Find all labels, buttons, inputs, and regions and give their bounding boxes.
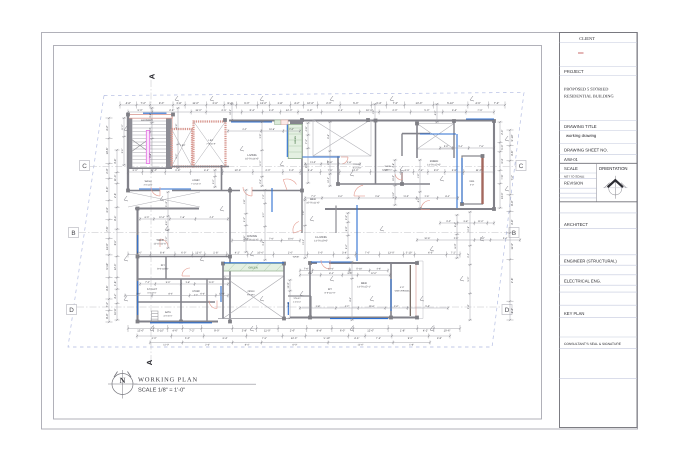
svg-text:11'-0": 11'-0" [192, 102, 199, 105]
interior dimension row B [127, 252, 461, 258]
svg-text:12'-0": 12'-0" [286, 109, 293, 112]
svg-text:5'-10": 5'-10" [406, 252, 413, 255]
svg-text:D: D [505, 307, 510, 314]
svg-text:10'-6": 10'-6" [114, 308, 117, 315]
svg-text:3'-4": 3'-4" [345, 244, 348, 249]
drawing area inner border [54, 46, 542, 420]
interior dimension row D [299, 273, 391, 277]
svg-text:5'-0": 5'-0" [289, 169, 294, 172]
veranda red edge [415, 264, 417, 318]
svg-text:7'-6": 7'-6" [365, 252, 370, 255]
svg-text:2'-6": 2'-6" [149, 153, 152, 158]
svg-text:7'-2": 7'-2" [305, 139, 308, 144]
svg-text:4'-2": 4'-2" [345, 305, 350, 308]
svg-text:2'-6": 2'-6" [205, 344, 210, 347]
interior dim col J [260, 121, 264, 187]
svg-text:5'-0": 5'-0" [353, 102, 358, 105]
bottom-right block top wall a [310, 262, 317, 264]
property boundary (dashed) [68, 93, 524, 348]
svg-text:5'-10": 5'-10" [349, 267, 352, 273]
svg-text:5'-0": 5'-0" [501, 144, 504, 149]
svg-text:2'-0": 2'-0" [288, 252, 293, 255]
svg-text:5'-10": 5'-10" [157, 330, 164, 333]
svg-text:2'-6": 2'-6" [121, 148, 124, 153]
title block rule [560, 291, 638, 293]
stair cross [131, 139, 149, 152]
svg-text:4'-2": 4'-2" [423, 330, 428, 333]
svg-text:9'-0": 9'-0" [434, 169, 439, 172]
svg-text:4'-6": 4'-6" [126, 102, 131, 105]
svg-text:ARCHITECT: ARCHITECT [564, 222, 588, 227]
svg-text:3'-8": 3'-8" [452, 169, 457, 172]
title block frame [560, 33, 638, 428]
svg-text:3'-8": 3'-8" [511, 219, 514, 224]
mid wall seg 2 [172, 190, 240, 192]
svg-text:3'-0"x4'-6": 3'-0"x4'-6" [143, 183, 152, 186]
svg-text:7'-2": 7'-2" [262, 194, 265, 199]
svg-text:16'-0"x14'-6": 16'-0"x14'-6" [245, 157, 259, 160]
blue line top corridor [231, 121, 272, 123]
svg-text:13'-0": 13'-0" [310, 161, 316, 164]
room label BED [306, 197, 320, 204]
room label OPEN [247, 290, 255, 296]
title block rule [560, 130, 638, 132]
svg-text:KEY PLAN: KEY PLAN [564, 311, 584, 316]
misc tick arrows [124, 96, 509, 331]
svg-text:6'-0": 6'-0" [114, 240, 117, 245]
door swing lobby-wash [151, 187, 160, 196]
columns [126, 113, 496, 324]
interior dimension col G [288, 279, 292, 319]
top dimension row 1 [119, 102, 506, 109]
svg-text:5'-10": 5'-10" [447, 102, 454, 105]
title block rule [560, 304, 638, 306]
svg-text:8'-4": 8'-4" [327, 134, 330, 139]
svg-text:5'-10": 5'-10" [165, 201, 168, 207]
interior dim col U [435, 103, 439, 123]
title block rule [560, 228, 638, 230]
svg-text:4'-2": 4'-2" [294, 102, 299, 105]
court left wall [222, 264, 224, 319]
svg-text:1'-8": 1'-8" [277, 102, 282, 105]
svg-text:6'-0": 6'-0" [133, 169, 138, 172]
bottom dimension row 3 [149, 341, 431, 345]
interior dim col K [328, 121, 332, 187]
interior dim row I [139, 217, 229, 221]
room label 4'-0" [395, 286, 411, 292]
svg-text:13'-0": 13'-0" [106, 243, 109, 250]
svg-text:6'-0": 6'-0" [181, 252, 186, 255]
svg-text:6'-0": 6'-0" [454, 244, 457, 249]
bottom wall left [138, 320, 219, 322]
svg-text:12'-0": 12'-0" [229, 109, 232, 115]
grid line D [77, 306, 501, 308]
interior dim row H [304, 196, 459, 200]
door swing d.bed [209, 301, 217, 309]
door swing f.living [293, 222, 302, 234]
svg-text:7'-2": 7'-2" [141, 102, 146, 105]
svg-text:13'-0": 13'-0" [328, 268, 334, 271]
interior dimension col D [306, 122, 310, 184]
blue line wash [139, 188, 191, 190]
svg-text:8'-4": 8'-4" [160, 252, 165, 255]
lobby left wall [221, 165, 223, 191]
svg-text:6'-0": 6'-0" [244, 102, 249, 105]
svg-text:3'-4": 3'-4" [342, 252, 347, 255]
svg-text:DRAWING TITLE: DRAWING TITLE [564, 124, 597, 129]
north symbol [108, 370, 138, 399]
svg-text:4'-6": 4'-6" [172, 330, 177, 333]
scale/orientation divider [596, 163, 598, 202]
wall hatch block top [290, 120, 303, 125]
svg-text:10'-6": 10'-6" [366, 109, 373, 112]
green planter vertical [288, 125, 302, 159]
svg-text:12'-0": 12'-0" [260, 102, 267, 105]
svg-text:9'-0": 9'-0" [166, 281, 171, 284]
svg-text:7'-6": 7'-6" [501, 174, 504, 179]
stair right pink edge [172, 115, 174, 168]
door swing bath [395, 173, 402, 180]
svg-text:9'-0": 9'-0" [106, 313, 109, 318]
svg-text:1'-8": 1'-8" [175, 169, 180, 172]
grid line B [79, 232, 508, 234]
svg-text:7'-2": 7'-2" [494, 102, 499, 105]
svg-text:4'-2": 4'-2" [209, 216, 214, 219]
interior dim row K [299, 269, 389, 273]
cluster v3 [206, 279, 208, 322]
bath wall upper [401, 134, 403, 156]
interior dim col S [230, 103, 234, 121]
stair handrail (magenta) [146, 131, 149, 164]
svg-text:CLIENT: CLIENT [579, 36, 595, 41]
grid bubble D left [67, 305, 77, 315]
svg-text:7'-2": 7'-2" [189, 330, 194, 333]
blue riser court [287, 302, 289, 315]
grid bubble D right [502, 305, 512, 315]
svg-text:9'-0": 9'-0" [212, 179, 215, 184]
svg-text:9'-0": 9'-0" [214, 330, 219, 333]
svg-text:13'-0": 13'-0" [415, 102, 422, 105]
title block rule [560, 66, 638, 68]
room label WASH [293, 256, 300, 259]
bottom-right block top wall b [329, 262, 417, 264]
svg-text:LOBBY: LOBBY [192, 179, 200, 182]
svg-text:12'-0": 12'-0" [150, 169, 157, 172]
svg-text:REVISION: REVISION [564, 181, 583, 186]
svg-text:13'-0": 13'-0" [501, 192, 504, 199]
interior dimension col A [244, 189, 248, 253]
blue line R.BED top [420, 133, 456, 135]
svg-text:5'-0": 5'-0" [424, 109, 429, 112]
svg-text:ENGINEER (STRUCTURAL): ENGINEER (STRUCTURAL) [564, 259, 617, 264]
svg-text:2'-6": 2'-6" [425, 195, 430, 198]
lobby right wall [301, 124, 303, 191]
svg-text:4'-6": 4'-6" [354, 337, 359, 340]
svg-text:7'-6": 7'-6" [106, 226, 109, 231]
interior dim row M [124, 294, 229, 298]
svg-text:2'-0": 2'-0" [326, 102, 331, 105]
svg-text:8'-0"x10'-0": 8'-0"x10'-0" [157, 267, 169, 270]
toilet left wall [337, 156, 339, 184]
green strip [223, 264, 284, 272]
svg-text:NOT TO SCALE: NOT TO SCALE [564, 174, 584, 178]
svg-text:PROJECT: PROJECT [564, 69, 584, 74]
svg-text:2'-6": 2'-6" [137, 252, 142, 255]
interior dim col O [350, 261, 354, 321]
court right wall [283, 264, 285, 319]
svg-text:1'-8": 1'-8" [213, 252, 218, 255]
interior dim row N [299, 306, 449, 310]
svg-text:working drawing: working drawing [566, 133, 597, 138]
interior dim row L [139, 282, 229, 286]
svg-text:7'-6": 7'-6" [393, 102, 398, 105]
central vertical wall [229, 187, 231, 322]
svg-text:4'-2": 4'-2" [417, 197, 420, 202]
svg-text:4'-6": 4'-6" [428, 252, 433, 255]
toilet bottom wall [338, 183, 430, 185]
svg-text:4'-2": 4'-2" [114, 294, 117, 299]
room label T.BED [153, 239, 166, 245]
room label WASH [143, 180, 152, 186]
title block rule [560, 212, 638, 214]
svg-text:ELECTRICAL ENG.: ELECTRICAL ENG. [564, 279, 601, 284]
svg-text:A: A [145, 359, 154, 365]
svg-text:12'-0": 12'-0" [114, 264, 117, 271]
title block rule [560, 153, 638, 155]
toilet right wall [375, 120, 377, 184]
blue line green strip [224, 262, 284, 264]
svg-text:8'-4": 8'-4" [114, 216, 117, 221]
svg-text:7'-2": 7'-2" [106, 302, 109, 307]
svg-text:12'-0": 12'-0" [327, 177, 330, 183]
svg-text:PROPOSED 5 STORIED: PROPOSED 5 STORIED [564, 87, 608, 92]
svg-text:6'-0": 6'-0" [293, 344, 298, 347]
blue riser left wall a [137, 235, 139, 253]
svg-text:BATH: BATH [165, 311, 171, 314]
svg-text:2'-0": 2'-0" [289, 128, 294, 131]
door swing bed right [421, 201, 430, 210]
svg-text:3'-4": 3'-4" [376, 102, 381, 105]
svg-text:BED: BED [361, 281, 367, 285]
svg-text:4'-6": 4'-6" [475, 102, 480, 105]
svg-text:7'-2": 7'-2" [376, 337, 381, 340]
cluster v1 [165, 257, 167, 280]
title block rule [560, 75, 638, 77]
svg-text:SCALE: SCALE [564, 166, 578, 171]
blue line bottom left [150, 322, 212, 324]
svg-text:6'-0": 6'-0" [269, 109, 274, 112]
svg-text:6'-0": 6'-0" [200, 293, 205, 296]
svg-text:LAUNDRY: LAUNDRY [141, 119, 154, 122]
svg-text:2'-6": 2'-6" [308, 272, 313, 275]
veranda walls [462, 156, 483, 204]
door swing dining [243, 187, 252, 196]
wall below right bedrooms [325, 208, 494, 210]
svg-text:2'-0": 2'-0" [501, 130, 504, 135]
title block rule [560, 284, 638, 286]
wall below stair [128, 167, 172, 169]
svg-text:9'-0": 9'-0" [159, 102, 164, 105]
room label F.LIVING [314, 235, 328, 242]
svg-text:OPEN: OPEN [248, 290, 255, 293]
title block rule [560, 274, 638, 276]
svg-text:3'-4": 3'-4" [244, 238, 249, 241]
room label KIT. [157, 264, 169, 270]
svg-text:3'-8": 3'-8" [186, 281, 191, 284]
interior dim row F [439, 146, 495, 150]
svg-text:2'-0": 2'-0" [152, 337, 157, 340]
svg-text:4'-6": 4'-6" [511, 150, 514, 155]
lift shaft L2 [194, 122, 226, 167]
title block rule [560, 172, 597, 174]
svg-text:3'-8": 3'-8" [259, 134, 262, 139]
svg-text:GREEN: GREEN [294, 136, 297, 145]
svg-text:9'-0": 9'-0" [138, 109, 143, 112]
title block rule [560, 187, 597, 189]
svg-text:5'-10": 5'-10" [324, 337, 331, 340]
cluster wall 1 [138, 278, 231, 280]
interior dimension col B [346, 212, 350, 259]
svg-text:5'-10": 5'-10" [392, 192, 395, 198]
partition dining right [301, 191, 303, 234]
svg-text:4'-0"x6'-0": 4'-0"x6'-0" [163, 314, 172, 317]
svg-text:6'-0": 6'-0" [175, 154, 178, 159]
svg-text:A/W-01: A/W-01 [564, 157, 579, 162]
interior dim col H [166, 191, 170, 249]
title block rule [560, 317, 638, 319]
svg-text:2'-0": 2'-0" [454, 237, 459, 240]
stair left wall (filled) [127, 116, 132, 168]
svg-text:2'-6": 2'-6" [221, 109, 226, 112]
grid bubble B left [69, 228, 79, 238]
svg-text:8'-4": 8'-4" [250, 109, 255, 112]
svg-text:11'-0": 11'-0" [121, 124, 124, 130]
svg-text:7'-2": 7'-2" [451, 252, 456, 255]
svg-text:DRAWING SHEET NO.: DRAWING SHEET NO. [564, 148, 608, 153]
svg-text:ORIENTATION: ORIENTATION [599, 166, 628, 171]
svg-text:B: B [512, 230, 516, 237]
svg-text:7'-6": 7'-6" [302, 210, 305, 215]
svg-text:4'-6": 4'-6" [106, 285, 109, 290]
svg-text:2'-6": 2'-6" [114, 193, 117, 198]
svg-text:7'-6": 7'-6" [479, 145, 484, 148]
svg-text:7'-0"x5'-8": 7'-0"x5'-8" [206, 142, 216, 145]
svg-text:5'-10": 5'-10" [356, 268, 362, 271]
title block rule [560, 143, 638, 145]
svg-text:1'-8": 1'-8" [114, 281, 117, 286]
closet stub wall [335, 206, 337, 234]
door swing kit [160, 239, 168, 247]
lift shaft L1 [172, 129, 193, 167]
svg-text:4'-2": 4'-2" [106, 125, 109, 130]
svg-text:10'-6": 10'-6" [235, 169, 242, 172]
interior dim col M [468, 211, 472, 321]
svg-text:8'-4": 8'-4" [317, 330, 322, 333]
svg-text:4'-2": 4'-2" [434, 111, 437, 116]
title block rule [560, 177, 597, 179]
interior dimension col C [393, 159, 397, 206]
svg-text:5'-0": 5'-0" [425, 305, 430, 308]
blue riser lobby [271, 188, 273, 212]
svg-text:3'-4": 3'-4" [503, 237, 508, 240]
svg-text:4'-6": 4'-6" [404, 169, 409, 172]
svg-text:14'-0"x12'-6": 14'-0"x12'-6" [427, 163, 441, 166]
blue line above stair [143, 112, 167, 114]
svg-text:5'-10": 5'-10" [511, 134, 514, 141]
svg-text:3'-4": 3'-4" [452, 109, 457, 112]
svg-text:2'-6": 2'-6" [259, 179, 262, 184]
svg-text:SCALE 1/8" = 1'-0": SCALE 1/8" = 1'-0" [138, 387, 185, 394]
svg-text:VER.: VER. [469, 180, 475, 183]
room label DINING [245, 234, 259, 241]
svg-text:3'-8": 3'-8" [149, 113, 152, 118]
grid bubble C left [80, 161, 90, 171]
left wall upper [127, 115, 129, 191]
svg-text:3'-4": 3'-4" [222, 337, 227, 340]
svg-text:LIFT: LIFT [209, 139, 214, 142]
mid wall seg 3 [252, 190, 302, 192]
interior dim row E [227, 129, 301, 133]
svg-text:1'-8": 1'-8" [409, 344, 414, 347]
svg-text:6'-0": 6'-0" [340, 330, 345, 333]
room label TOILET [353, 163, 362, 169]
svg-text:3'-8": 3'-8" [262, 241, 265, 246]
blue line bottom-right top [311, 261, 352, 263]
blue line top right [466, 118, 494, 120]
svg-text:9'-0": 9'-0" [338, 195, 343, 198]
svg-text:11'-0": 11'-0" [149, 128, 152, 134]
svg-text:DINING: DINING [247, 234, 257, 238]
svg-text:9'-0": 9'-0" [511, 200, 514, 205]
blue line below terrace [302, 156, 340, 158]
svg-text:KIT.: KIT. [161, 264, 166, 267]
cluster wall 2 [138, 301, 216, 303]
svg-text:7'-6": 7'-6" [269, 238, 274, 241]
svg-text:5'-0": 5'-0" [345, 226, 348, 231]
svg-text:5'-0": 5'-0" [106, 187, 109, 192]
svg-text:LIFT: LIFT [181, 144, 186, 147]
blue riser left-centre [220, 286, 222, 302]
interior dimension row C [439, 221, 495, 225]
red duct box top [281, 120, 288, 125]
open court crossed box [223, 276, 284, 319]
svg-text:4'-0": 4'-0" [470, 183, 474, 186]
svg-text:LIVING: LIVING [247, 153, 256, 157]
svg-text:3'-8": 3'-8" [114, 159, 117, 164]
svg-text:1'-8": 1'-8" [180, 216, 185, 219]
svg-text:11'-0": 11'-0" [208, 281, 214, 284]
interior dim row J [416, 238, 521, 242]
title underline [134, 383, 256, 385]
room label WASH [384, 165, 393, 171]
svg-text:11'-0": 11'-0" [478, 220, 484, 223]
svg-text:2'-0": 2'-0" [345, 215, 348, 220]
svg-text:7'-6": 7'-6" [304, 268, 309, 271]
svg-text:13'-0": 13'-0" [288, 238, 294, 241]
svg-text:3'-4": 3'-4" [501, 158, 504, 163]
svg-text:WASH: WASH [385, 165, 392, 168]
svg-text:9'-0": 9'-0" [446, 220, 451, 223]
title block rule [560, 377, 638, 379]
bottom wall right [290, 317, 417, 319]
interior dim col R [176, 107, 180, 169]
svg-text:14'-0"x12'-1": 14'-0"x12'-1" [357, 285, 371, 288]
svg-text:13'-0": 13'-0" [137, 330, 144, 333]
room label BATH [163, 311, 172, 317]
client red mark [578, 52, 584, 54]
room label KIT. [324, 288, 335, 294]
bottom-right divider [390, 263, 392, 318]
